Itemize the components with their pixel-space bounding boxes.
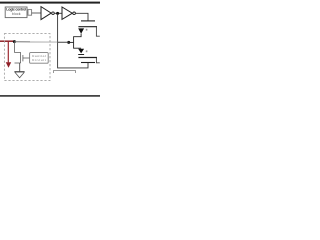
load staple (component top)	[54, 71, 76, 73]
diode D1 (body diode of M1)	[78, 28, 84, 33]
red current path horizontal	[0, 40, 15, 42]
control circuit box	[30, 53, 49, 64]
top rail (VDD bus)	[0, 2, 100, 4]
wire D1 to node B	[74, 34, 82, 43]
transistor M1 gate plate	[81, 20, 95, 22]
level shifter block	[28, 10, 32, 16]
inverter U2 output bubble	[52, 12, 55, 15]
node B junction dot	[67, 41, 70, 44]
wire Q1 source to ground	[19, 63, 21, 71]
ground	[14, 71, 24, 73]
inverter U3	[62, 7, 72, 19]
transistor M1 channel	[78, 26, 97, 28]
node A junction dot	[56, 12, 59, 15]
bottom rail (GND bus)	[0, 95, 100, 97]
inverter U2	[41, 7, 51, 20]
label M2	[86, 50, 88, 52]
wire bubble to node A	[54, 12, 62, 14]
label M1	[86, 29, 88, 31]
red arrowhead	[6, 62, 11, 67]
inverter U3 output bubble	[73, 12, 76, 15]
svg-text:Circuit: Circuit	[32, 58, 46, 62]
transistor M1 drain wire to right rail	[96, 27, 99, 36]
wire node B horizontal	[69, 41, 74, 43]
svg-text:block: block	[12, 12, 21, 16]
transistor Q1 gate bar	[22, 55, 24, 61]
wire U3 output to M1 gate	[75, 13, 88, 20]
node C junction dot	[13, 40, 16, 43]
transistor Q1 source arm	[15, 62, 21, 64]
transistor Q1 drain wire	[15, 42, 21, 52]
diode D2 (body diode of M2)	[78, 49, 84, 54]
red current arrow vertical	[7, 41, 9, 62]
wire node B to D2	[74, 42, 82, 48]
transistor Q1 channel	[20, 52, 22, 63]
transistor M2 channel	[78, 57, 97, 59]
transistor M2 source wire to right rail	[96, 58, 99, 63]
wire box to level shifter	[27, 12, 28, 14]
wire Q1 gate to control box	[23, 57, 30, 59]
wire node A to M2 gate	[58, 13, 88, 68]
wire node C to node B	[14, 41, 30, 43]
logic block U1	[5, 7, 27, 18]
transistor M2 gate plate	[81, 62, 95, 64]
dashed box (discharge circuit)	[4, 34, 50, 81]
wire to inverter U2	[32, 12, 41, 14]
diode D2 cathode bar	[78, 54, 84, 56]
